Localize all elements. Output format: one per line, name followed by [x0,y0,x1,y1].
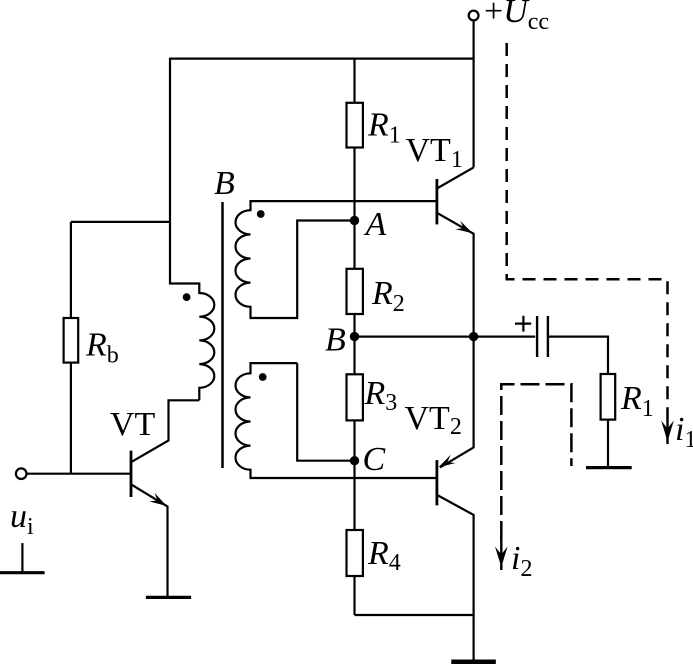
svg-text:VT1: VT1 [406,132,463,173]
ground load [586,466,632,469]
transistor VT emitter arrow [150,493,167,506]
node B [350,332,359,341]
svg-text:B: B [214,165,235,202]
svg-text:R3: R3 [364,375,398,416]
wire R2 to R3 [353,314,355,374]
wire secondary bottom inner terminal to node C [297,363,354,461]
node A [350,216,359,225]
wire Rb branch [71,221,170,223]
wire Rb top lead [70,222,72,318]
svg-text:i1: i1 [675,411,693,453]
svg-text:C: C [363,441,386,478]
transformer secondary top dot [257,210,265,218]
resistor R2 [347,269,363,314]
wire node B to output node [355,336,474,338]
wire R1 to R2 [353,148,355,269]
transformer secondary top winding + wire to VT1 base [235,201,436,318]
transistor VT2 emitter arrow [439,455,456,468]
wire input [27,473,131,475]
dashed current path i1 [507,43,668,428]
terminal input [16,468,27,479]
wire Rb bottom lead [70,363,72,474]
svg-text:ui: ui [10,498,34,540]
wire R3 to R4 [353,420,355,530]
wire capacitor to load [549,337,608,374]
transistor VT collector [131,400,199,462]
transformer primary dot [183,293,191,301]
transistor VT1 collector [437,167,474,188]
transformer primary winding [170,284,214,401]
transistor VT base bar [130,451,133,497]
node output junction [469,332,478,341]
wire to bottom ground [473,615,475,660]
wire chain top lead [353,59,355,103]
svg-text:R4: R4 [367,535,401,576]
transistor VT1 emitter [437,213,474,337]
svg-text:A: A [364,206,387,243]
svg-text:i2: i2 [511,540,532,582]
transistor VT1 emitter arrow [455,221,472,234]
resistor R1 [347,103,363,148]
ground bottom [451,660,496,664]
transistor VT emitter [131,484,168,598]
arrow i1 [666,420,668,444]
wire top supply rail [170,57,474,59]
capacitor plus sign [515,316,531,332]
wire load bottom lead [607,420,609,466]
resistor R3 [347,374,363,420]
node C [350,456,359,465]
resistor RL load [601,374,616,420]
wire output to capacitor [474,336,536,338]
transformer secondary bottom winding + wire to VT2 base [235,363,436,478]
svg-text:+Ucc: +Ucc [484,0,549,35]
resistor Rb [64,318,79,363]
svg-text:VT: VT [110,406,156,443]
transistor VT2 collector [437,495,474,615]
svg-text:Rb: Rb [85,327,119,369]
wire bottom [355,614,474,616]
ground VT emitter [146,596,191,599]
wire left rail [169,58,171,285]
arrow i2 [500,536,502,570]
transistor VT2 emitter [440,337,474,468]
svg-text:VT2: VT2 [405,400,462,440]
wire R4 bottom lead [353,576,355,615]
svg-text:B: B [325,322,346,359]
resistor R4 [347,530,363,576]
ground input [21,543,23,572]
capacitor C plates [536,316,538,357]
transistor VT2 base bar [435,460,438,505]
wire +Ucc riser [473,20,475,167]
svg-text:R1: R1 [620,380,654,422]
transformer core [221,202,224,468]
terminal +Ucc [469,11,479,21]
transformer secondary bottom dot [259,373,267,381]
dashed current path i2 [501,384,571,540]
svg-text:R2: R2 [371,275,405,317]
transistor VT1 base bar [435,179,438,224]
svg-text:R1: R1 [367,107,401,149]
